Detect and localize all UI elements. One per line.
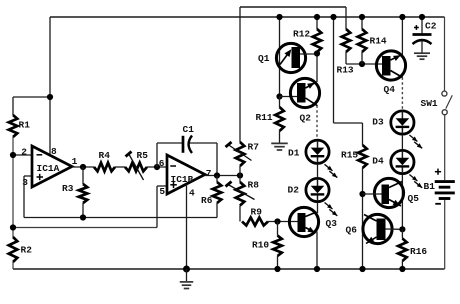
svg-text:R6: R6 (201, 195, 213, 206)
svg-text:IC1B: IC1B (171, 174, 194, 185)
svg-text:B1: B1 (424, 181, 436, 192)
svg-text:D2: D2 (288, 185, 300, 196)
svg-text:R8: R8 (248, 180, 260, 191)
svg-text:Q2: Q2 (300, 113, 312, 124)
svg-text:IC1A: IC1A (37, 163, 60, 174)
svg-text:3: 3 (22, 177, 28, 188)
svg-text:SW1: SW1 (421, 98, 438, 109)
svg-text:R4: R4 (99, 150, 111, 161)
svg-text:R5: R5 (137, 150, 149, 161)
svg-text:R13: R13 (337, 65, 354, 76)
svg-text:Q6: Q6 (346, 225, 358, 236)
svg-text:Q4: Q4 (384, 84, 396, 95)
svg-text:R3: R3 (62, 183, 74, 194)
svg-text:R1: R1 (19, 120, 31, 131)
svg-text:R12: R12 (293, 29, 310, 40)
svg-text:R16: R16 (410, 246, 427, 257)
svg-text:4: 4 (189, 188, 195, 199)
svg-text:7: 7 (206, 168, 212, 179)
svg-text:R9: R9 (251, 207, 263, 218)
svg-text:5: 5 (159, 186, 165, 197)
svg-text:Q5: Q5 (408, 193, 420, 204)
svg-text:R7: R7 (248, 142, 260, 153)
svg-text:D4: D4 (372, 156, 384, 167)
svg-text:8: 8 (51, 146, 57, 157)
svg-text:D1: D1 (288, 148, 300, 159)
svg-text:Q1: Q1 (258, 53, 270, 64)
svg-text:Q3: Q3 (326, 218, 338, 229)
svg-text:R15: R15 (341, 150, 358, 161)
svg-text:6: 6 (159, 158, 165, 169)
svg-text:1: 1 (72, 156, 78, 167)
svg-text:2: 2 (21, 146, 27, 157)
svg-text:R11: R11 (256, 112, 273, 123)
svg-text:R2: R2 (21, 245, 33, 256)
svg-text:R10: R10 (252, 240, 269, 251)
svg-text:C1: C1 (183, 124, 195, 135)
svg-text:R14: R14 (370, 35, 387, 46)
svg-text:C2: C2 (425, 21, 437, 32)
svg-text:D3: D3 (372, 117, 384, 128)
